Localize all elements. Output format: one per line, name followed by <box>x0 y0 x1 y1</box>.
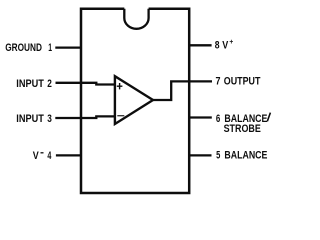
svg-text:7: 7 <box>216 76 221 88</box>
svg-text:1: 1 <box>48 42 52 54</box>
wire pin 5 BALANCE stub <box>189 154 211 156</box>
wire pin 6 BALANCE/STROBE stub <box>189 116 212 118</box>
index notch <box>124 9 148 29</box>
svg-text:STROBE: STROBE <box>224 123 261 135</box>
svg-text:4: 4 <box>47 150 51 162</box>
svg-text:V: V <box>33 150 40 162</box>
svg-text:V: V <box>222 39 229 51</box>
svg-text:INPUT: INPUT <box>16 78 44 90</box>
svg-text:OUTPUT: OUTPUT <box>224 76 261 88</box>
wire pin 1 GROUND stub <box>55 46 80 48</box>
wire op-amp output to pin 7 <box>153 81 212 100</box>
svg-text:GROUND: GROUND <box>5 42 42 54</box>
op-amp plus input symbol <box>117 83 123 89</box>
svg-text:3: 3 <box>47 113 52 125</box>
svg-text:5: 5 <box>216 149 220 161</box>
wire pin 2 to op-amp non-inverting input <box>56 83 115 85</box>
op-amp minus input symbol <box>117 115 124 117</box>
slash of BALANCE/STROBE <box>267 113 270 122</box>
wire pin 4 V- stub <box>56 154 81 156</box>
svg-text:2: 2 <box>47 78 52 90</box>
svg-text:8: 8 <box>215 39 220 51</box>
svg-text:INPUT: INPUT <box>16 113 44 125</box>
superscript minus of V- <box>41 152 44 154</box>
IC package U1 DIP-8 body outline <box>81 9 189 193</box>
svg-text:6: 6 <box>216 113 220 125</box>
svg-text:BALANCE: BALANCE <box>224 149 267 161</box>
svg-text:+: + <box>229 37 233 46</box>
wire pin 3 to op-amp inverting input <box>55 116 115 118</box>
wire pin 8 V+ stub <box>189 44 211 46</box>
op-amp A1 triangle <box>115 76 153 124</box>
